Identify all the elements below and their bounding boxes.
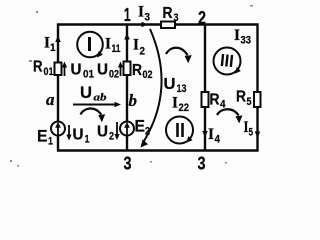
svg-text:01: 01 <box>44 66 54 78</box>
resistor R5 <box>254 92 261 107</box>
wire bottom bus (node3 rail) <box>57 149 259 151</box>
svg-text:13: 13 <box>177 83 187 95</box>
svg-text:b: b <box>129 91 138 110</box>
current arrow I4 <box>202 120 208 137</box>
svg-text:U: U <box>71 62 82 79</box>
resistor R4 <box>202 92 209 107</box>
resistor R02 <box>124 62 131 76</box>
svg-text:ab: ab <box>94 92 108 104</box>
svg-text:5: 5 <box>247 96 252 108</box>
current arrow I1 <box>55 36 61 51</box>
scan speckles <box>10 5 253 167</box>
svg-text:E: E <box>37 127 48 146</box>
voltage arc U13 (node1 to node3) <box>141 29 162 148</box>
svg-text:33: 33 <box>241 35 252 47</box>
svg-text:I: I <box>208 126 214 143</box>
svg-text:2: 2 <box>109 131 114 143</box>
svg-text:I: I <box>138 4 144 21</box>
svg-text:R: R <box>210 92 220 109</box>
svg-text:2: 2 <box>145 126 150 138</box>
loop direction arc (bottom left mesh) <box>81 108 106 122</box>
svg-text:R: R <box>236 89 246 106</box>
svg-text:3: 3 <box>198 154 206 174</box>
wire left branch middle (R01 to E1) <box>57 75 59 123</box>
wire middle branch upper (node1 to R02) <box>126 24 128 63</box>
current arrow I3 <box>142 22 149 28</box>
svg-text:11: 11 <box>112 43 121 55</box>
svg-text:E: E <box>135 117 146 136</box>
resistor R01 <box>55 63 62 76</box>
wire left branch upper (above R01) <box>57 24 59 64</box>
wire right branch lower (R5 to bottom-right corner) <box>256 107 258 152</box>
wire top bus left segment (left corner to R3) <box>57 23 161 25</box>
svg-text:02: 02 <box>109 69 119 81</box>
svg-text:I: I <box>234 27 240 44</box>
wire right branch upper (top-right corner to R5) <box>256 24 258 93</box>
source E2 <box>120 122 134 136</box>
current arrow I2 <box>124 33 130 55</box>
svg-text:1: 1 <box>48 136 53 148</box>
svg-text:4: 4 <box>215 134 221 146</box>
svg-text:3: 3 <box>124 154 132 174</box>
voltage arrow Uab <box>73 102 121 108</box>
wire left branch lower (E1 to bottom bus) <box>57 135 59 152</box>
voltage arrow U01 <box>62 62 67 77</box>
svg-text:5: 5 <box>249 127 254 139</box>
svg-text:02: 02 <box>143 69 153 81</box>
voltage arrow U1 <box>66 125 71 141</box>
svg-text:a: a <box>46 90 55 109</box>
source E1 <box>51 122 65 136</box>
wire middle branch mid (R02 to E2) <box>126 75 128 123</box>
wire middle branch lower (E2 to node3) <box>126 135 128 152</box>
svg-text:01: 01 <box>83 69 94 81</box>
svg-text:1: 1 <box>85 134 90 146</box>
loop I symbol <box>77 32 103 58</box>
svg-text:U: U <box>80 83 92 102</box>
svg-text:3: 3 <box>145 12 151 24</box>
svg-text:1: 1 <box>124 5 131 25</box>
svg-text:I: I <box>172 95 178 112</box>
voltage arrow U2 <box>114 122 119 140</box>
svg-text:2: 2 <box>140 46 146 58</box>
loop direction arc (top middle mesh) <box>166 48 192 63</box>
loop II symbol <box>166 117 193 144</box>
svg-text:U: U <box>73 127 84 144</box>
loop direction arc (bottom right mesh) <box>217 109 243 123</box>
svg-text:2: 2 <box>198 8 206 28</box>
svg-text:R: R <box>33 59 43 76</box>
svg-text:3: 3 <box>174 12 179 24</box>
svg-text:U: U <box>164 76 176 93</box>
voltage arrow U02 <box>118 62 123 77</box>
current arrow I5 <box>255 123 261 138</box>
resistor R3 <box>161 22 175 29</box>
svg-text:4: 4 <box>220 99 226 111</box>
svg-text:1: 1 <box>50 42 56 54</box>
svg-text:R: R <box>163 5 173 22</box>
wire R4 branch upper (node2 to R4) <box>204 25 206 93</box>
svg-text:22: 22 <box>179 102 190 114</box>
wire top bus right segment (R3 through node2 to top-right corner) <box>175 23 259 25</box>
svg-text:I: I <box>105 36 111 53</box>
wire R4 branch lower (R4 to bottom bus) <box>204 107 206 152</box>
svg-text:I: I <box>133 37 139 54</box>
svg-text:R: R <box>132 62 142 79</box>
svg-text:U: U <box>97 124 108 141</box>
svg-text:U: U <box>97 62 108 79</box>
loop III symbol <box>214 48 241 75</box>
